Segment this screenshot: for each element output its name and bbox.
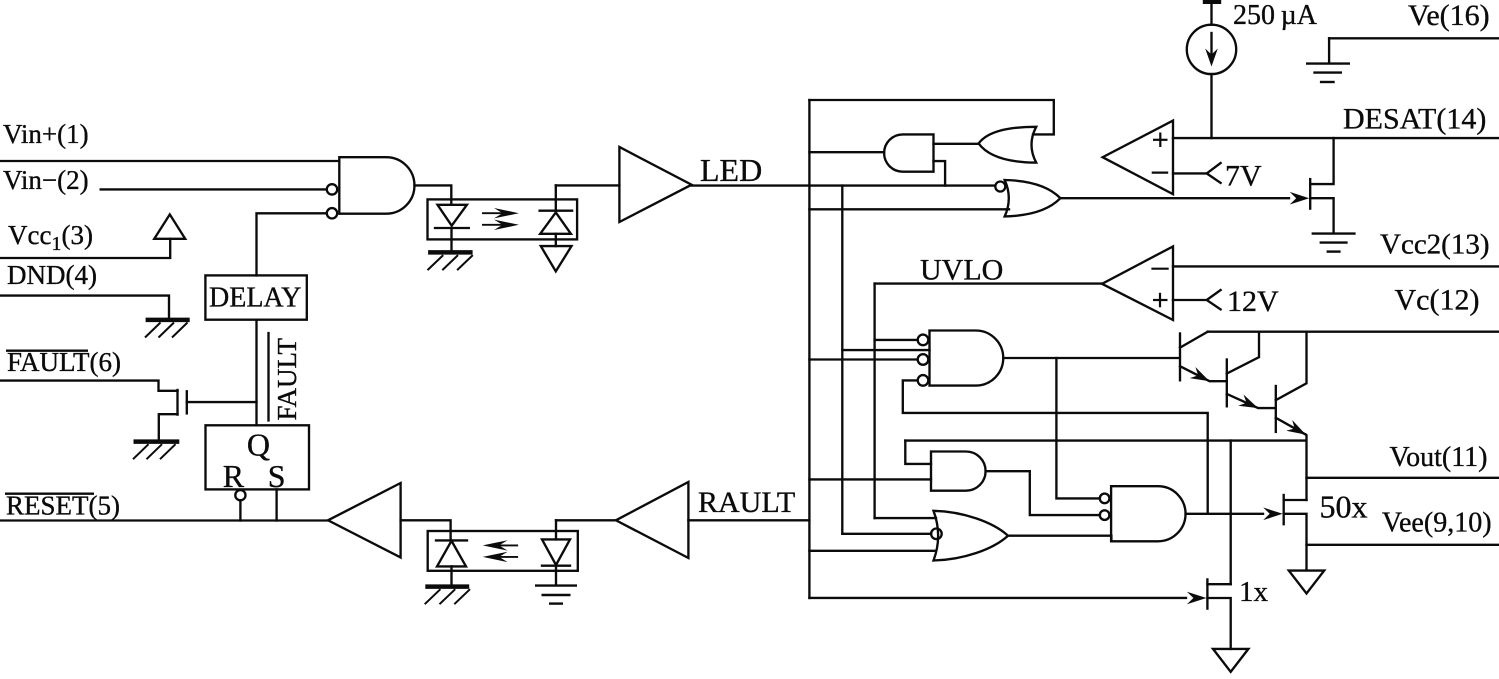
svg-text:Ve(16): Ve(16) <box>1408 0 1490 32</box>
svg-text:DELAY: DELAY <box>209 283 301 314</box>
svg-text:Vin+(1): Vin+(1) <box>3 119 89 149</box>
svg-text:DND(4): DND(4) <box>7 260 97 290</box>
svg-text:250 µA: 250 µA <box>1233 0 1318 31</box>
svg-text:Q: Q <box>247 427 270 463</box>
svg-text:Vcc2(13): Vcc2(13) <box>1380 229 1490 261</box>
svg-text:DESAT(14): DESAT(14) <box>1343 103 1486 136</box>
svg-text:1x: 1x <box>1239 576 1269 608</box>
svg-text:FAULT: FAULT <box>272 337 302 420</box>
svg-text:7V: 7V <box>1225 160 1262 193</box>
svg-text:RAULT: RAULT <box>698 486 795 519</box>
svg-text:50x: 50x <box>1320 489 1368 525</box>
svg-text:RESET(5): RESET(5) <box>6 491 120 521</box>
svg-text:R: R <box>223 458 245 494</box>
svg-text:12V: 12V <box>1227 285 1279 318</box>
svg-text:Vee(9,10): Vee(9,10) <box>1382 508 1492 539</box>
svg-text:UVLO: UVLO <box>920 254 1003 287</box>
svg-text:Vin−(2): Vin−(2) <box>3 165 89 195</box>
svg-text:S: S <box>268 458 286 494</box>
svg-text:LED: LED <box>700 152 762 188</box>
svg-text:Vcc1(3): Vcc1(3) <box>8 220 93 255</box>
svg-text:Vout(11): Vout(11) <box>1390 442 1488 473</box>
svg-text:Vc(12): Vc(12) <box>1395 284 1480 317</box>
